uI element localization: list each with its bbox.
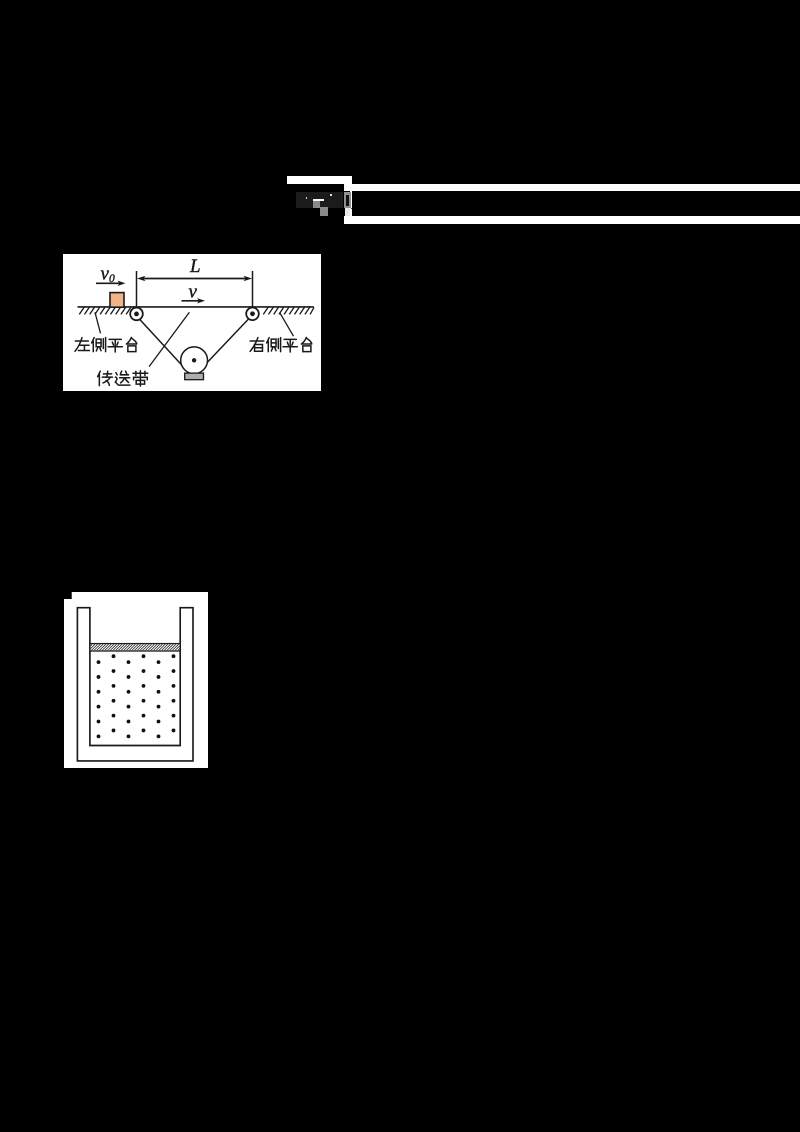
- svg-text:v: v: [189, 282, 198, 303]
- belt right run: [207, 318, 249, 362]
- white fraction bar: [313, 199, 324, 201]
- svg-text:v0: v0: [101, 264, 115, 286]
- annotation line to belt: [149, 312, 189, 366]
- left pulley: [130, 308, 143, 321]
- left platform hatching: [79, 307, 131, 314]
- gray blob 2: [320, 207, 328, 216]
- text 左侧平台: [75, 337, 137, 352]
- light gray blob: [345, 208, 351, 216]
- faint dark block: [296, 192, 343, 208]
- v arrow: [182, 298, 206, 303]
- v0 arrow: [96, 281, 126, 286]
- right platform hatching: [263, 307, 314, 314]
- tiny white dot: [330, 194, 332, 196]
- ground / belt top line: [78, 306, 314, 308]
- motor base: [185, 373, 204, 380]
- white vertical connector: [350, 191, 352, 216]
- long white bar A: [344, 184, 800, 192]
- annotation line to left platform: [95, 312, 101, 333]
- gray blob 1: [313, 201, 321, 208]
- bottom pulley: [181, 347, 208, 374]
- svg-text:L: L: [189, 256, 201, 277]
- L dimension arrow line: [137, 276, 252, 282]
- long white bar B: [344, 216, 800, 224]
- text 右侧平台: [250, 337, 312, 352]
- block on left platform: [110, 293, 124, 308]
- belt left run: [140, 319, 184, 367]
- figure 2: gas container with piston: [64, 592, 208, 768]
- right pulley: [246, 308, 259, 321]
- vessel outline: [77, 607, 193, 760]
- L dimension verticals: [137, 271, 253, 308]
- text 传送带: [98, 371, 148, 386]
- annotation line to right platform: [280, 313, 294, 337]
- gas molecule dots: [97, 654, 176, 738]
- piston: [90, 643, 180, 650]
- gray column with dark center: [344, 192, 351, 207]
- top-left notch: [64, 592, 72, 599]
- white rect: first short bar: [287, 176, 352, 184]
- figure 1: conveyor belt diagram: [63, 254, 321, 391]
